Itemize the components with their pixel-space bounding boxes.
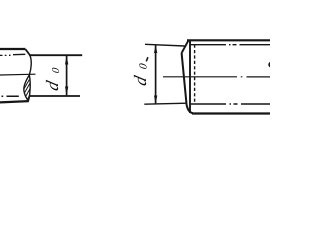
right rod: pointed end left edge [182, 53, 187, 105]
dimension d0 top arrowhead [65, 55, 68, 64]
right rod: centerline [163, 76, 270, 78]
left rod: break lens hatching [24, 80, 30, 100]
dimension d0 bottom arrowhead [65, 87, 68, 96]
left rod: main bottom outline [30, 95, 80, 97]
svg-text:0: 0 [137, 62, 149, 70]
right rod: pointed end top slant [182, 40, 189, 53]
left rod: stub bottom outline dash [2, 95, 19, 97]
dimension d0' bottom arrowhead [154, 96, 157, 105]
right rod: hidden line at end of inner bar [194, 45, 196, 104]
svg-text:d: d [42, 79, 62, 93]
left rod: jog from stub to main outline [25, 49, 29, 55]
right rod: inner bar top phantom line [191, 44, 271, 46]
dimension d0' top arrowhead [154, 44, 157, 53]
partial glyph at right image edge [268, 62, 274, 68]
left rod: stub thick bottom outline [0, 101, 29, 102]
right rod: pointed end bottom rounded corner [187, 105, 193, 113]
dimension line d0' [155, 45, 157, 104]
right rod: inner bar top extension line [145, 44, 185, 46]
right rod: bottom outline [192, 112, 270, 114]
svg-text:d: d [130, 74, 150, 88]
right rod: top outline [187, 39, 270, 41]
dimension line d0 [66, 56, 68, 95]
left rod: main top outline [29, 54, 82, 56]
svg-text:0: 0 [51, 66, 62, 74]
left rod: break lens (hatched section) [24, 75, 30, 101]
left rod: centerline [0, 73, 36, 76]
left rod: break S-curve upper arc [29, 55, 31, 75]
label d0': prime mark [146, 57, 148, 61]
right rod: cone-body transition line [189, 40, 191, 113]
left rod: broken-off stub top outline [0, 48, 25, 50]
right rod: inner bar bottom phantom line [191, 103, 270, 105]
right rod: inner bar bottom extension line [144, 103, 187, 104]
left rod: hidden top edge through stub (dashed) [0, 54, 25, 55]
